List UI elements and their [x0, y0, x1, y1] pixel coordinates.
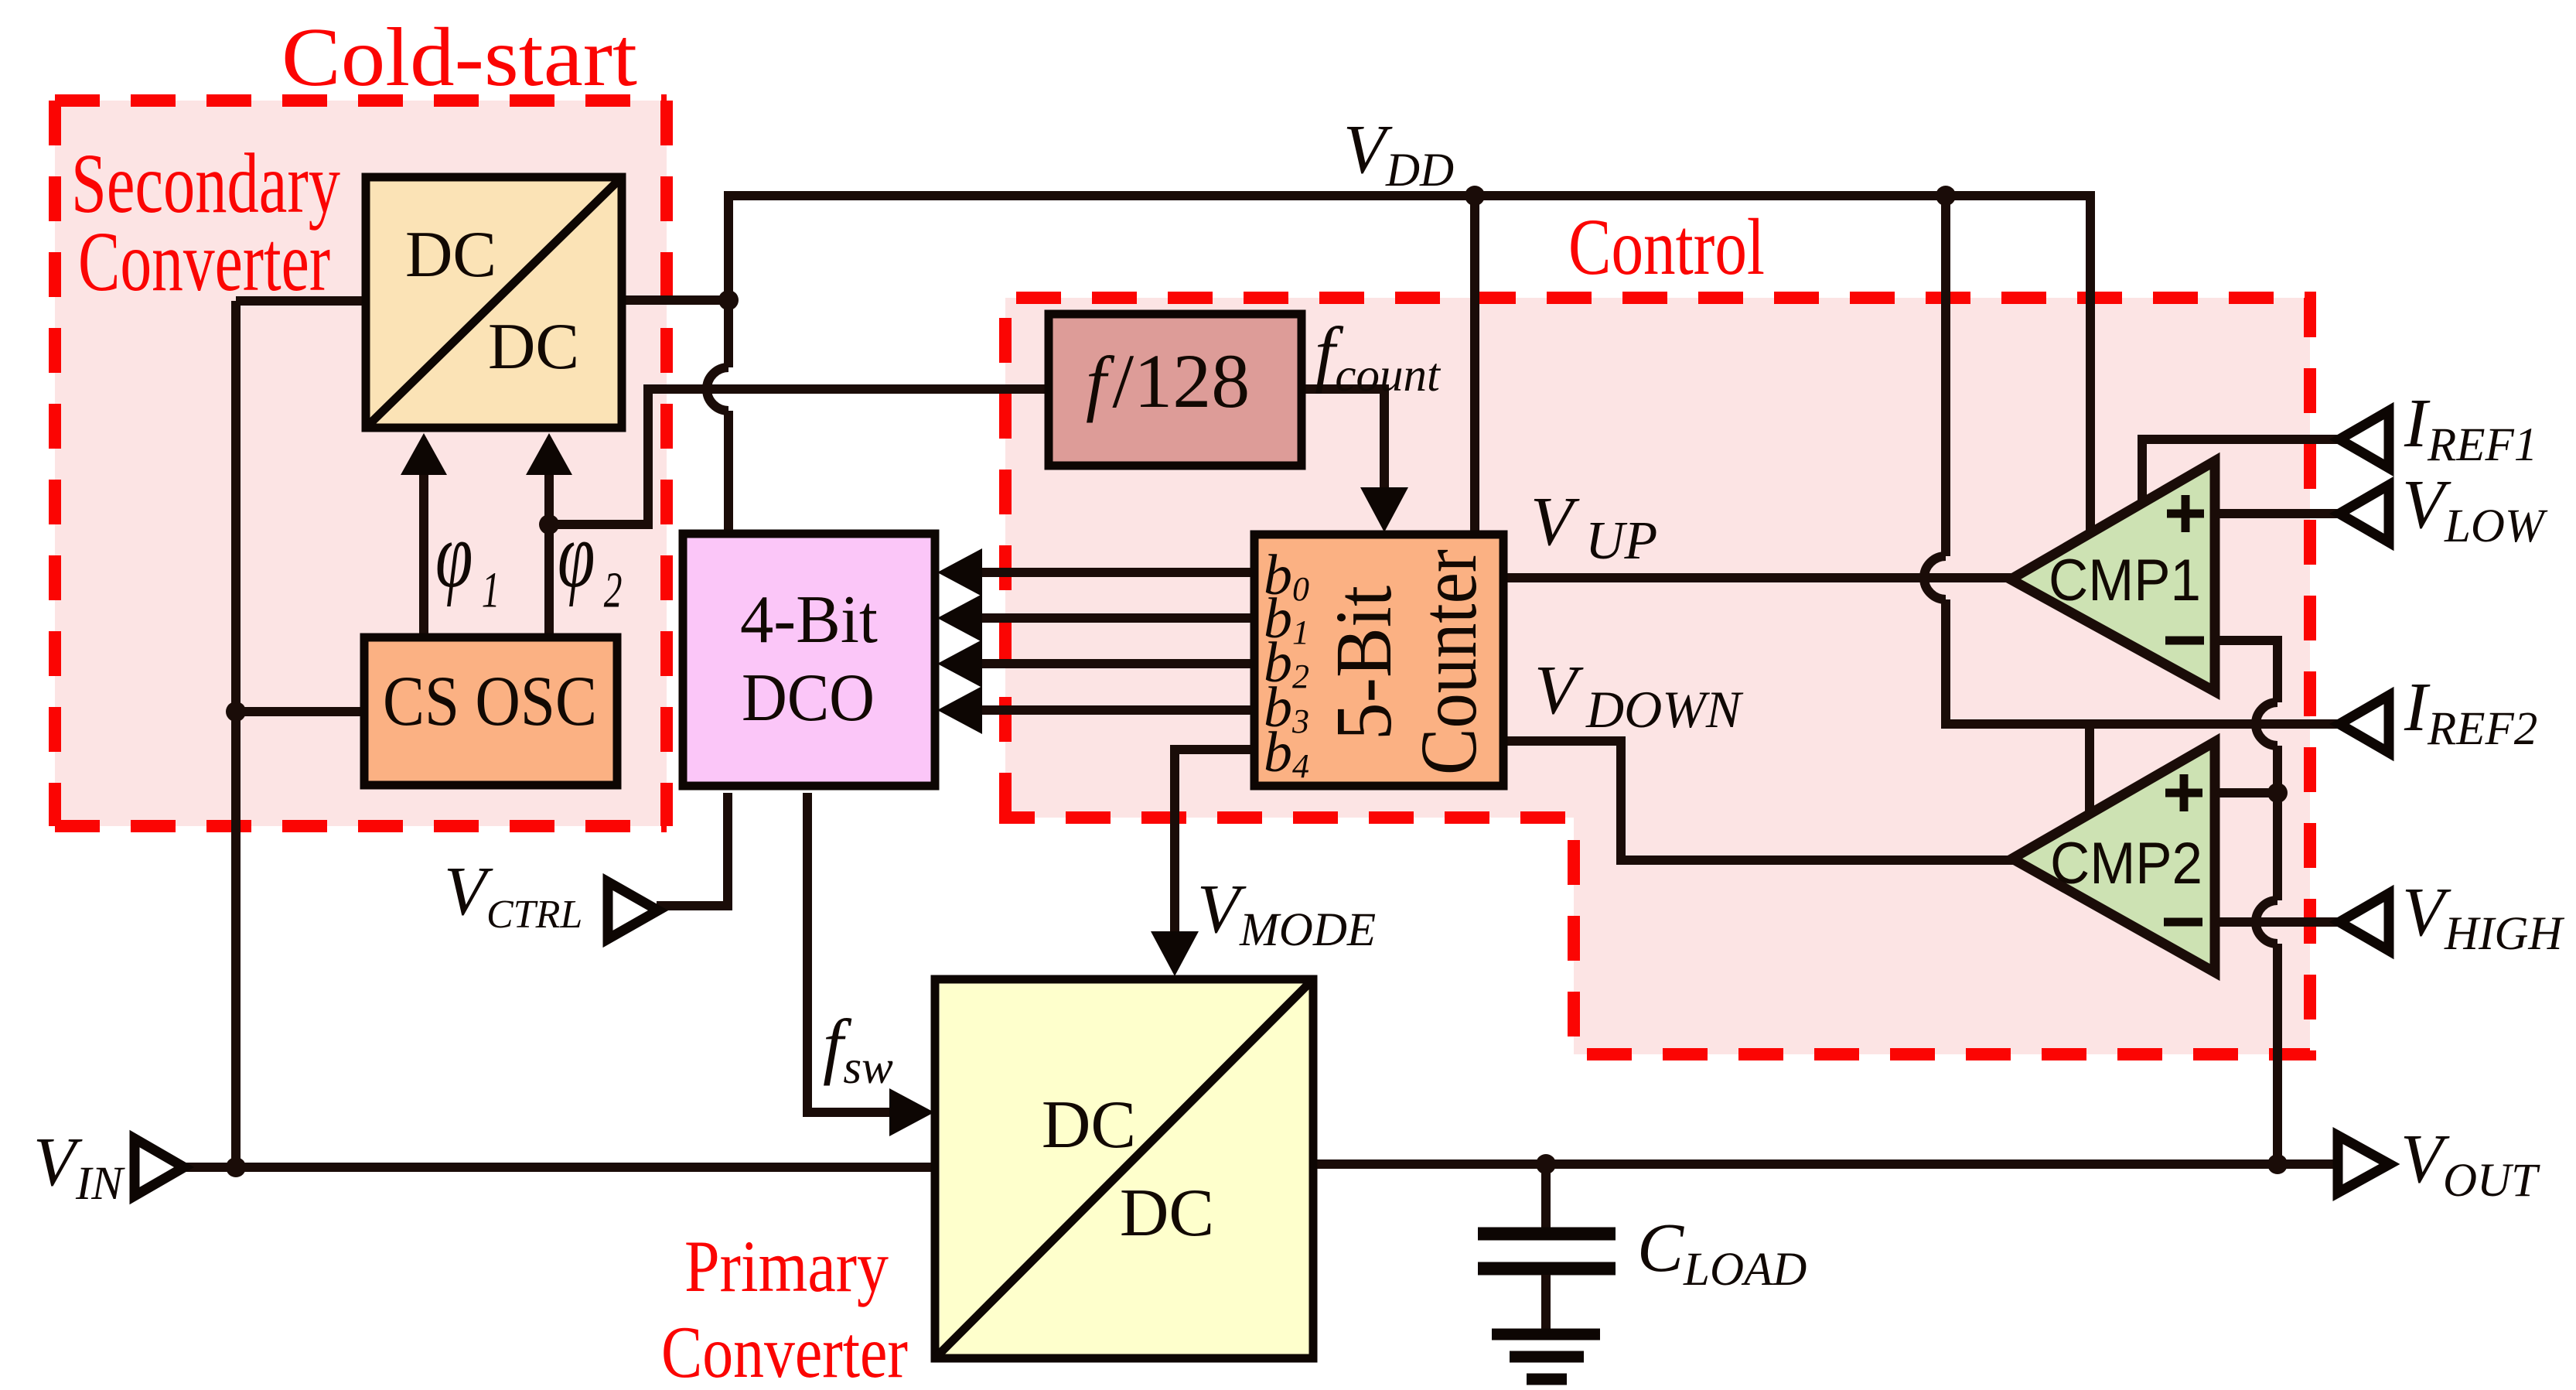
svg-text:5-Bit: 5-Bit — [1319, 586, 1408, 740]
svg-text:Control: Control — [1568, 203, 1765, 292]
block 5-Bit Counter — [1254, 534, 1503, 786]
arrowhead phi1 up — [401, 433, 447, 475]
wire f_sw DCO to primary converter — [807, 793, 896, 1112]
wire V_UP CMP1 output to counter — [1507, 573, 2014, 582]
wire CMP1 minus to CMP2 plus and V_OUT sense with hops — [2212, 640, 2277, 1164]
node C_LOAD junction — [1536, 1154, 1556, 1174]
node CMP2 plus junction — [2267, 783, 2288, 803]
wire b1 counter to DCO — [979, 613, 1254, 623]
terminal V_OUT — [2338, 1136, 2390, 1193]
cold-start region fill — [55, 101, 667, 826]
svg-text:Primary: Primary — [684, 1225, 889, 1307]
svg-text:DC: DC — [405, 218, 496, 291]
wire V_CTRL to DCO — [657, 793, 728, 906]
arrowhead phi2 up — [526, 433, 572, 475]
node phi2 clock tap junction — [539, 514, 559, 534]
wire phi1 — [419, 470, 428, 640]
node VDD junction to counter — [1465, 186, 1485, 206]
wire CMP2 minus to V_HIGH — [2212, 917, 2342, 927]
node V_IN/CS-OSC junction — [226, 702, 246, 722]
svg-text:CMP1: CMP1 — [2049, 548, 2201, 613]
arrowhead b2 — [937, 640, 982, 688]
arrowhead V_MODE down — [1151, 931, 1199, 976]
wire V_DOWN CMP2 output to counter — [1507, 741, 2015, 860]
wire junction to CMP2 plus — [2212, 788, 2277, 797]
wire VDD down to DCO with hop over clock wire — [724, 300, 733, 533]
control region fill — [1005, 298, 2310, 1054]
wire hop at (2945,1192) — [2256, 900, 2277, 944]
wire b0 counter to DCO — [979, 568, 1254, 577]
terminal I_REF1 — [2339, 411, 2389, 468]
wire phi2 — [544, 470, 554, 640]
svg-text:DC: DC — [1042, 1088, 1136, 1163]
control dashed border — [1005, 298, 2310, 1054]
wire V_OUT horizontal — [1314, 1159, 2363, 1169]
arrowhead b3 — [937, 686, 982, 734]
svg-text:Counter: Counter — [1404, 549, 1493, 775]
op-amp CMP2 — [2012, 742, 2215, 972]
terminal V_HIGH — [2339, 893, 2389, 951]
svg-text:DC: DC — [488, 310, 579, 383]
wire VDD down to counter top — [1470, 196, 1479, 534]
wire V_IN to secondary DC/DC input — [236, 296, 362, 306]
wire f/128 output to counter — [1303, 389, 1384, 492]
terminal V_CTRL — [608, 882, 658, 939]
arrowhead b0 — [937, 548, 982, 596]
wire b3 counter to DCO — [979, 705, 1254, 715]
wire CMP2 top supply drop — [2085, 724, 2094, 814]
svg-text:CMP2: CMP2 — [2050, 831, 2202, 896]
node VDD junction to IREF2 rail — [1936, 186, 1956, 206]
ground — [1492, 1334, 1600, 1379]
block f/128 divider — [1049, 314, 1302, 466]
label phi2 — [558, 503, 623, 618]
wire hop at (2945,936) — [2256, 702, 2277, 746]
block secondary DC/DC converter — [366, 177, 622, 428]
wire VDD rail riser and top rail — [728, 196, 2090, 532]
svg-text:Converter: Converter — [661, 1311, 908, 1390]
svg-text:Cold-start: Cold-start — [281, 12, 637, 104]
cold-start dashed border — [55, 101, 667, 826]
terminal V_IN — [135, 1139, 184, 1196]
block 4-Bit DCO — [683, 534, 935, 786]
arrowhead f_count down — [1360, 487, 1408, 532]
svg-text:4-Bit: 4-Bit — [740, 582, 878, 657]
wire VDD down to IREF2 line with hop over V_UP — [1946, 196, 2342, 724]
wire secondary DC/DC output — [623, 295, 728, 305]
wire V_IN horizontal — [183, 1163, 937, 1172]
op-amp CMP1 — [2011, 461, 2215, 692]
capacitor C_LOAD lead and plates — [1478, 1164, 1616, 1329]
svg-text:DC: DC — [1120, 1176, 1214, 1251]
wire b4 V_MODE to primary converter — [1175, 750, 1254, 936]
wire I_REF1 to CMP1 top — [2142, 439, 2342, 503]
wire hop at (942,503) — [707, 367, 728, 411]
wire V_IN rail left vertical — [231, 301, 241, 1167]
arrowhead b1 — [937, 594, 982, 642]
block primary DC/DC converter — [935, 979, 1313, 1358]
node V_IN junction — [226, 1157, 246, 1177]
wire b2 counter to DCO — [979, 659, 1254, 668]
wire V_IN to CS OSC input — [236, 707, 367, 716]
label phi1 — [435, 503, 500, 618]
svg-text:CS OSC: CS OSC — [383, 661, 597, 740]
svg-text:Converter: Converter — [78, 214, 330, 309]
block CS OSC — [364, 637, 617, 785]
wire CMP1 plus input to V_LOW — [2212, 509, 2342, 518]
wire hop at (2516,747) — [1924, 556, 1946, 599]
wire CS OSC clock to f/128 — [549, 389, 1051, 524]
node V_OUT sense junction — [2267, 1154, 2288, 1174]
svg-text:DCO: DCO — [742, 661, 875, 736]
terminal V_LOW — [2339, 485, 2389, 542]
node VDD junction at secondary output — [718, 290, 739, 310]
terminal I_REF2 — [2339, 695, 2389, 753]
arrowhead f_sw right — [889, 1088, 934, 1136]
